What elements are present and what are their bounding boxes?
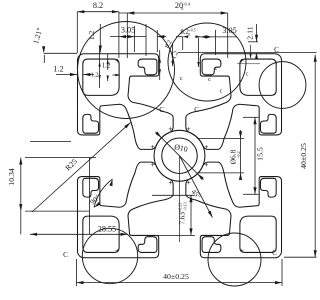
dim 1.2 vertical in TL circle [99,24,101,53]
svg-text:c: c [246,71,249,78]
detail circle top-right [168,23,246,101]
svg-text:3.05: 3.05 [121,26,135,35]
corner cavity top-right [240,59,276,95]
lip channel hole top-right [202,59,221,75]
detail circle bottom-right [208,233,261,286]
svg-text:C: C [159,106,164,114]
arc center tick marks [169,128,173,130]
dim 2.11 top-right [256,24,258,42]
svg-text:C: C [63,251,68,259]
dim 40 bottom [76,259,78,286]
lip channel hole left-left [83,178,99,197]
detail circle bottom-left [82,228,137,283]
top edge extension left [44,52,77,54]
corner cavity top-left [83,59,119,95]
corner cavity bottom-right [240,216,276,252]
dim diameter 10 center [156,132,204,180]
svg-text:8.2: 8.2 [93,1,103,10]
svg-text:1.2: 1.2 [102,62,111,70]
svg-text:3.05: 3.05 [222,26,236,35]
lip channel hole bottom-right [138,237,157,253]
extension at 141.5 [30,141,71,143]
svg-text:1.2: 1.2 [53,65,63,74]
vertical centerline [179,156,181,242]
dim 1.2 left [56,74,77,76]
dim 7.63 [152,194,194,196]
lip channel hole left-right [83,114,99,133]
detail circle top-left [78,22,175,119]
svg-text:1.2: 1.2 [91,72,99,79]
profile outer silhouette [77,54,281,258]
central bore circle [162,138,198,174]
leader 45deg [180,156,213,218]
svg-text:C: C [274,46,279,54]
svg-text:C: C [272,249,277,257]
svg-text:C: C [194,106,199,114]
lip channel hole bottom-left [202,237,221,253]
top edge extension right [178,51,317,53]
dim 3.05 left [134,26,136,52]
dim 28.55 [30,233,128,235]
lip channel hole right-left [260,114,276,133]
construction vertical at 89 [88,158,90,235]
svg-text:28.55: 28.55 [98,225,116,234]
svg-text:c: c [220,88,223,95]
small arrow onto TR box top [250,45,252,58]
svg-text:c: c [180,75,183,82]
svg-text:c: c [208,76,211,83]
svg-text:15.5: 15.5 [256,147,265,161]
dim 15.5 [243,116,259,118]
svg-text:10.34: 10.34 [7,168,16,186]
detail circle right [259,62,306,109]
dim 3.05 right [215,30,217,55]
svg-text:40±0.25: 40±0.25 [299,143,308,169]
dim 10.34 [25,157,96,159]
svg-text:7.63+0.25-0.13: 7.63+0.25-0.13 [178,202,188,224]
dim 40 right [284,256,317,258]
dim 90deg [94,179,113,208]
svg-text:1.2: 1.2 [87,30,96,40]
svg-text:c: c [215,65,218,72]
dim diameter 6.8 [197,137,244,139]
dim 8.2 top [76,12,78,53]
lip channel hole right-right [260,178,276,197]
svg-text:40±0.25: 40±0.25 [163,272,189,281]
dim 20 0/-0.4 top [126,13,128,58]
leader R25 [32,123,131,213]
hub outer arcs diameter 10 [156,132,169,145]
svg-text:2.11: 2.11 [246,26,255,39]
corner cavity bottom-left [83,216,119,252]
lip channel hole top-left [138,59,157,75]
